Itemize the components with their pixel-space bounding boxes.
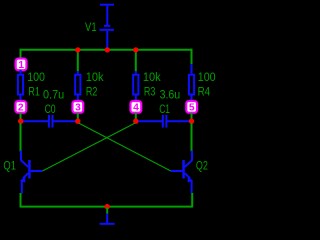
wire node5 down to Q2 collector — [191, 123, 193, 152]
wire right corner down to R4 — [191, 49, 193, 65]
resistor R4 — [189, 64, 216, 101]
wire Q1 emitter to bottom rail — [20, 193, 22, 208]
svg-text:5: 5 — [189, 102, 195, 113]
wire Q2 emitter to bottom rail — [191, 193, 193, 208]
svg-text:V1: V1 — [85, 20, 97, 34]
svg-text:100: 100 — [27, 72, 45, 84]
junction dot rail-R3 — [133, 47, 138, 52]
wire rail to R2 — [77, 50, 79, 72]
wire node4 to junction — [135, 113, 137, 121]
svg-text:3: 3 — [75, 102, 81, 113]
wire node3 to junction — [77, 113, 79, 121]
svg-text:R1: R1 — [28, 84, 40, 98]
transistor Q2 — [171, 151, 208, 194]
wire node2 to junction — [20, 113, 22, 121]
svg-text:100: 100 — [198, 72, 216, 84]
resistor R1 — [18, 70, 45, 101]
wire node3 to Q2 base (diagonal) — [79, 123, 171, 171]
junction dot rail-R2 — [75, 47, 80, 52]
svg-text:R3: R3 — [144, 84, 156, 98]
wire left corner down to node 1 — [20, 49, 22, 59]
svg-text:R4: R4 — [198, 84, 211, 98]
node 4 — [131, 101, 142, 113]
svg-text:10k: 10k — [86, 72, 104, 84]
resistor R3 — [133, 71, 161, 101]
svg-text:1: 1 — [18, 60, 24, 71]
ground — [100, 214, 115, 224]
junction dot node5-C1 — [189, 119, 194, 124]
junction dot node3-C0 — [75, 119, 80, 124]
wire rail to R3 — [135, 50, 137, 72]
node 5 — [186, 101, 197, 113]
transistor Q1 — [3, 151, 42, 194]
svg-text:Q1: Q1 — [3, 159, 16, 173]
svg-text:0.7u: 0.7u — [43, 87, 64, 101]
capacitor C1 — [136, 87, 192, 127]
svg-text:10k: 10k — [143, 72, 161, 84]
junction dot ground — [105, 204, 110, 209]
svg-text:Q2: Q2 — [196, 159, 208, 173]
svg-text:2: 2 — [18, 102, 24, 113]
battery V1 — [100, 5, 115, 49]
wire bottom rail — [21, 206, 193, 208]
capacitor C0 — [21, 87, 78, 127]
wire node4 to Q1 base (diagonal) — [42, 123, 135, 171]
junction dot node2-C0 — [18, 119, 23, 124]
svg-text:4: 4 — [133, 102, 139, 113]
wire node2 down to Q1 collector — [20, 123, 22, 152]
node 1 — [16, 59, 26, 71]
wire rail to ground — [106, 208, 108, 214]
node 2 — [16, 101, 27, 113]
wire top rail — [21, 49, 192, 51]
svg-text:R2: R2 — [86, 84, 98, 98]
resistor R2 — [75, 71, 104, 101]
junction dot rail-V1 — [105, 47, 110, 52]
wire node5 to junction — [191, 113, 193, 121]
junction dot node4-C1 — [133, 119, 138, 124]
svg-text:3.6u: 3.6u — [160, 87, 181, 101]
svg-text:C0: C0 — [45, 102, 56, 116]
node 3 — [73, 101, 84, 113]
svg-text:C1: C1 — [159, 102, 170, 116]
